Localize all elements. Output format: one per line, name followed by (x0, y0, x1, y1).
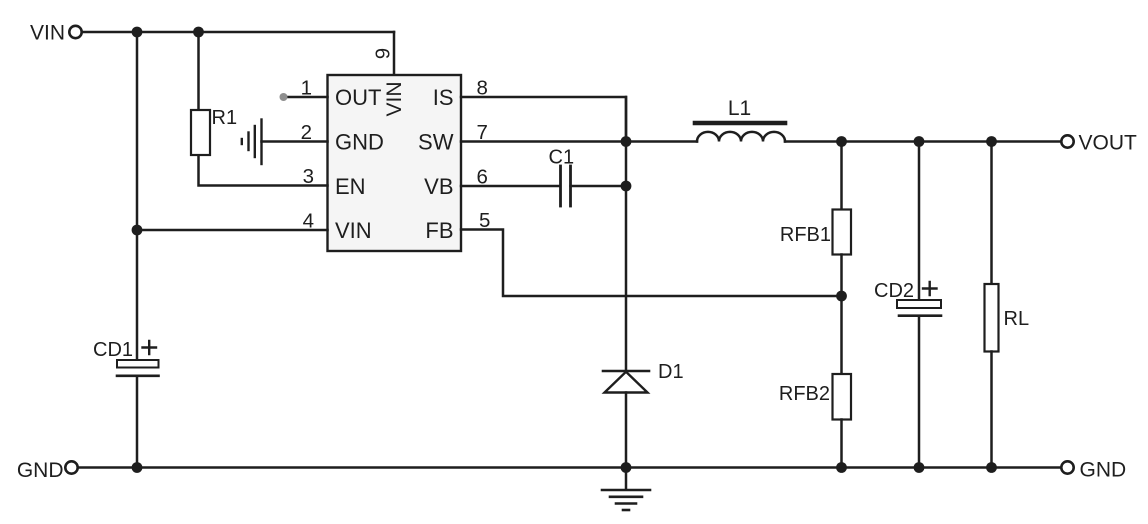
node junction VIN/CD1 (132, 27, 143, 38)
svg-text:C1: C1 (549, 147, 575, 169)
svg-text:RFB2: RFB2 (779, 383, 830, 405)
ground (pin 2, rotated left) (242, 120, 262, 165)
op-amp U1 (regulator IC body) (328, 75, 462, 251)
svg-text:6: 6 (477, 166, 488, 189)
svg-text:RFB1: RFB1 (780, 224, 831, 246)
svg-text:1: 1 (301, 77, 312, 100)
svg-text:GND: GND (335, 130, 384, 155)
svg-text:VB: VB (424, 174, 453, 199)
svg-text:IS: IS (433, 85, 454, 110)
node junction D1/GND (621, 462, 632, 473)
node junction CD1/GND (132, 462, 143, 473)
wire bottom rail GND (78, 466, 1061, 469)
svg-text:3: 3 (303, 165, 314, 188)
svg-text:EN: EN (335, 174, 366, 199)
svg-text:8: 8 (477, 77, 488, 100)
terminal GND right (1061, 459, 1126, 482)
capacitor CD2 (874, 142, 941, 468)
node junction RL top (986, 136, 997, 147)
wire pin9 drop (393, 32, 396, 75)
terminal GND left (17, 459, 78, 482)
svg-text:FB: FB (425, 218, 453, 243)
svg-text:GND: GND (17, 459, 64, 482)
svg-text:9: 9 (372, 48, 395, 59)
svg-text:7: 7 (477, 121, 488, 144)
node junction FB/RFB (836, 291, 847, 302)
svg-text:VOUT: VOUT (1079, 132, 1138, 155)
svg-text:VIN: VIN (335, 218, 372, 243)
wire pin 3 EN from R1 (199, 155, 328, 186)
svg-text:CD2: CD2 (874, 280, 914, 302)
node junction VIN/R1 (193, 27, 204, 38)
pin 2 stub wire (262, 140, 328, 143)
svg-text:2: 2 (301, 121, 312, 144)
svg-text:R1: R1 (212, 107, 238, 129)
svg-text:SW: SW (418, 130, 454, 155)
svg-text:OUT: OUT (335, 85, 381, 110)
node junction RFB2/GND (836, 462, 847, 473)
svg-text:GND: GND (1080, 459, 1127, 482)
capacitor C1 (549, 147, 627, 207)
node junction SW/IS/D1 (621, 136, 632, 147)
svg-text:4: 4 (303, 210, 314, 233)
wire top rail VIN (82, 31, 394, 34)
diode D1 (603, 361, 684, 468)
svg-text:L1: L1 (728, 97, 751, 120)
capacitor CD1 (93, 32, 159, 468)
svg-text:VIN: VIN (383, 81, 406, 116)
terminal VIN (30, 22, 82, 45)
wire SW to VOUT (785, 140, 1061, 143)
svg-text:CD1: CD1 (93, 339, 133, 361)
resistor RFB2 (779, 296, 851, 468)
wire pin 6 VB (461, 185, 560, 188)
node junction L1/RFB1 (836, 136, 847, 147)
svg-text:D1: D1 (658, 361, 684, 383)
wire pin 5 FB (461, 230, 842, 297)
pin 1 open end dot (280, 93, 288, 101)
resistor RL (985, 142, 1030, 468)
wire pin 4 VIN branch (137, 229, 328, 232)
wire D1 column (625, 97, 628, 371)
node junction CD2 top (914, 136, 925, 147)
pin 1 stub wire (285, 96, 328, 99)
node junction CD2/GND (914, 462, 925, 473)
resistor RFB1 (780, 142, 851, 297)
node junction pin4/CD1 (132, 225, 143, 236)
node junction VB/D1 column (621, 181, 632, 192)
resistor R1 (191, 32, 237, 155)
svg-text:RL: RL (1004, 308, 1030, 330)
svg-text:5: 5 (479, 209, 490, 232)
terminal VOUT (1061, 132, 1137, 155)
node junction RL/GND (986, 462, 997, 473)
svg-text:VIN: VIN (30, 22, 65, 45)
wire pin 7 SW (461, 140, 697, 143)
inductor L1 (695, 97, 785, 142)
ground (bottom earth symbol) (602, 468, 650, 511)
wire pin 8 IS (461, 97, 626, 142)
